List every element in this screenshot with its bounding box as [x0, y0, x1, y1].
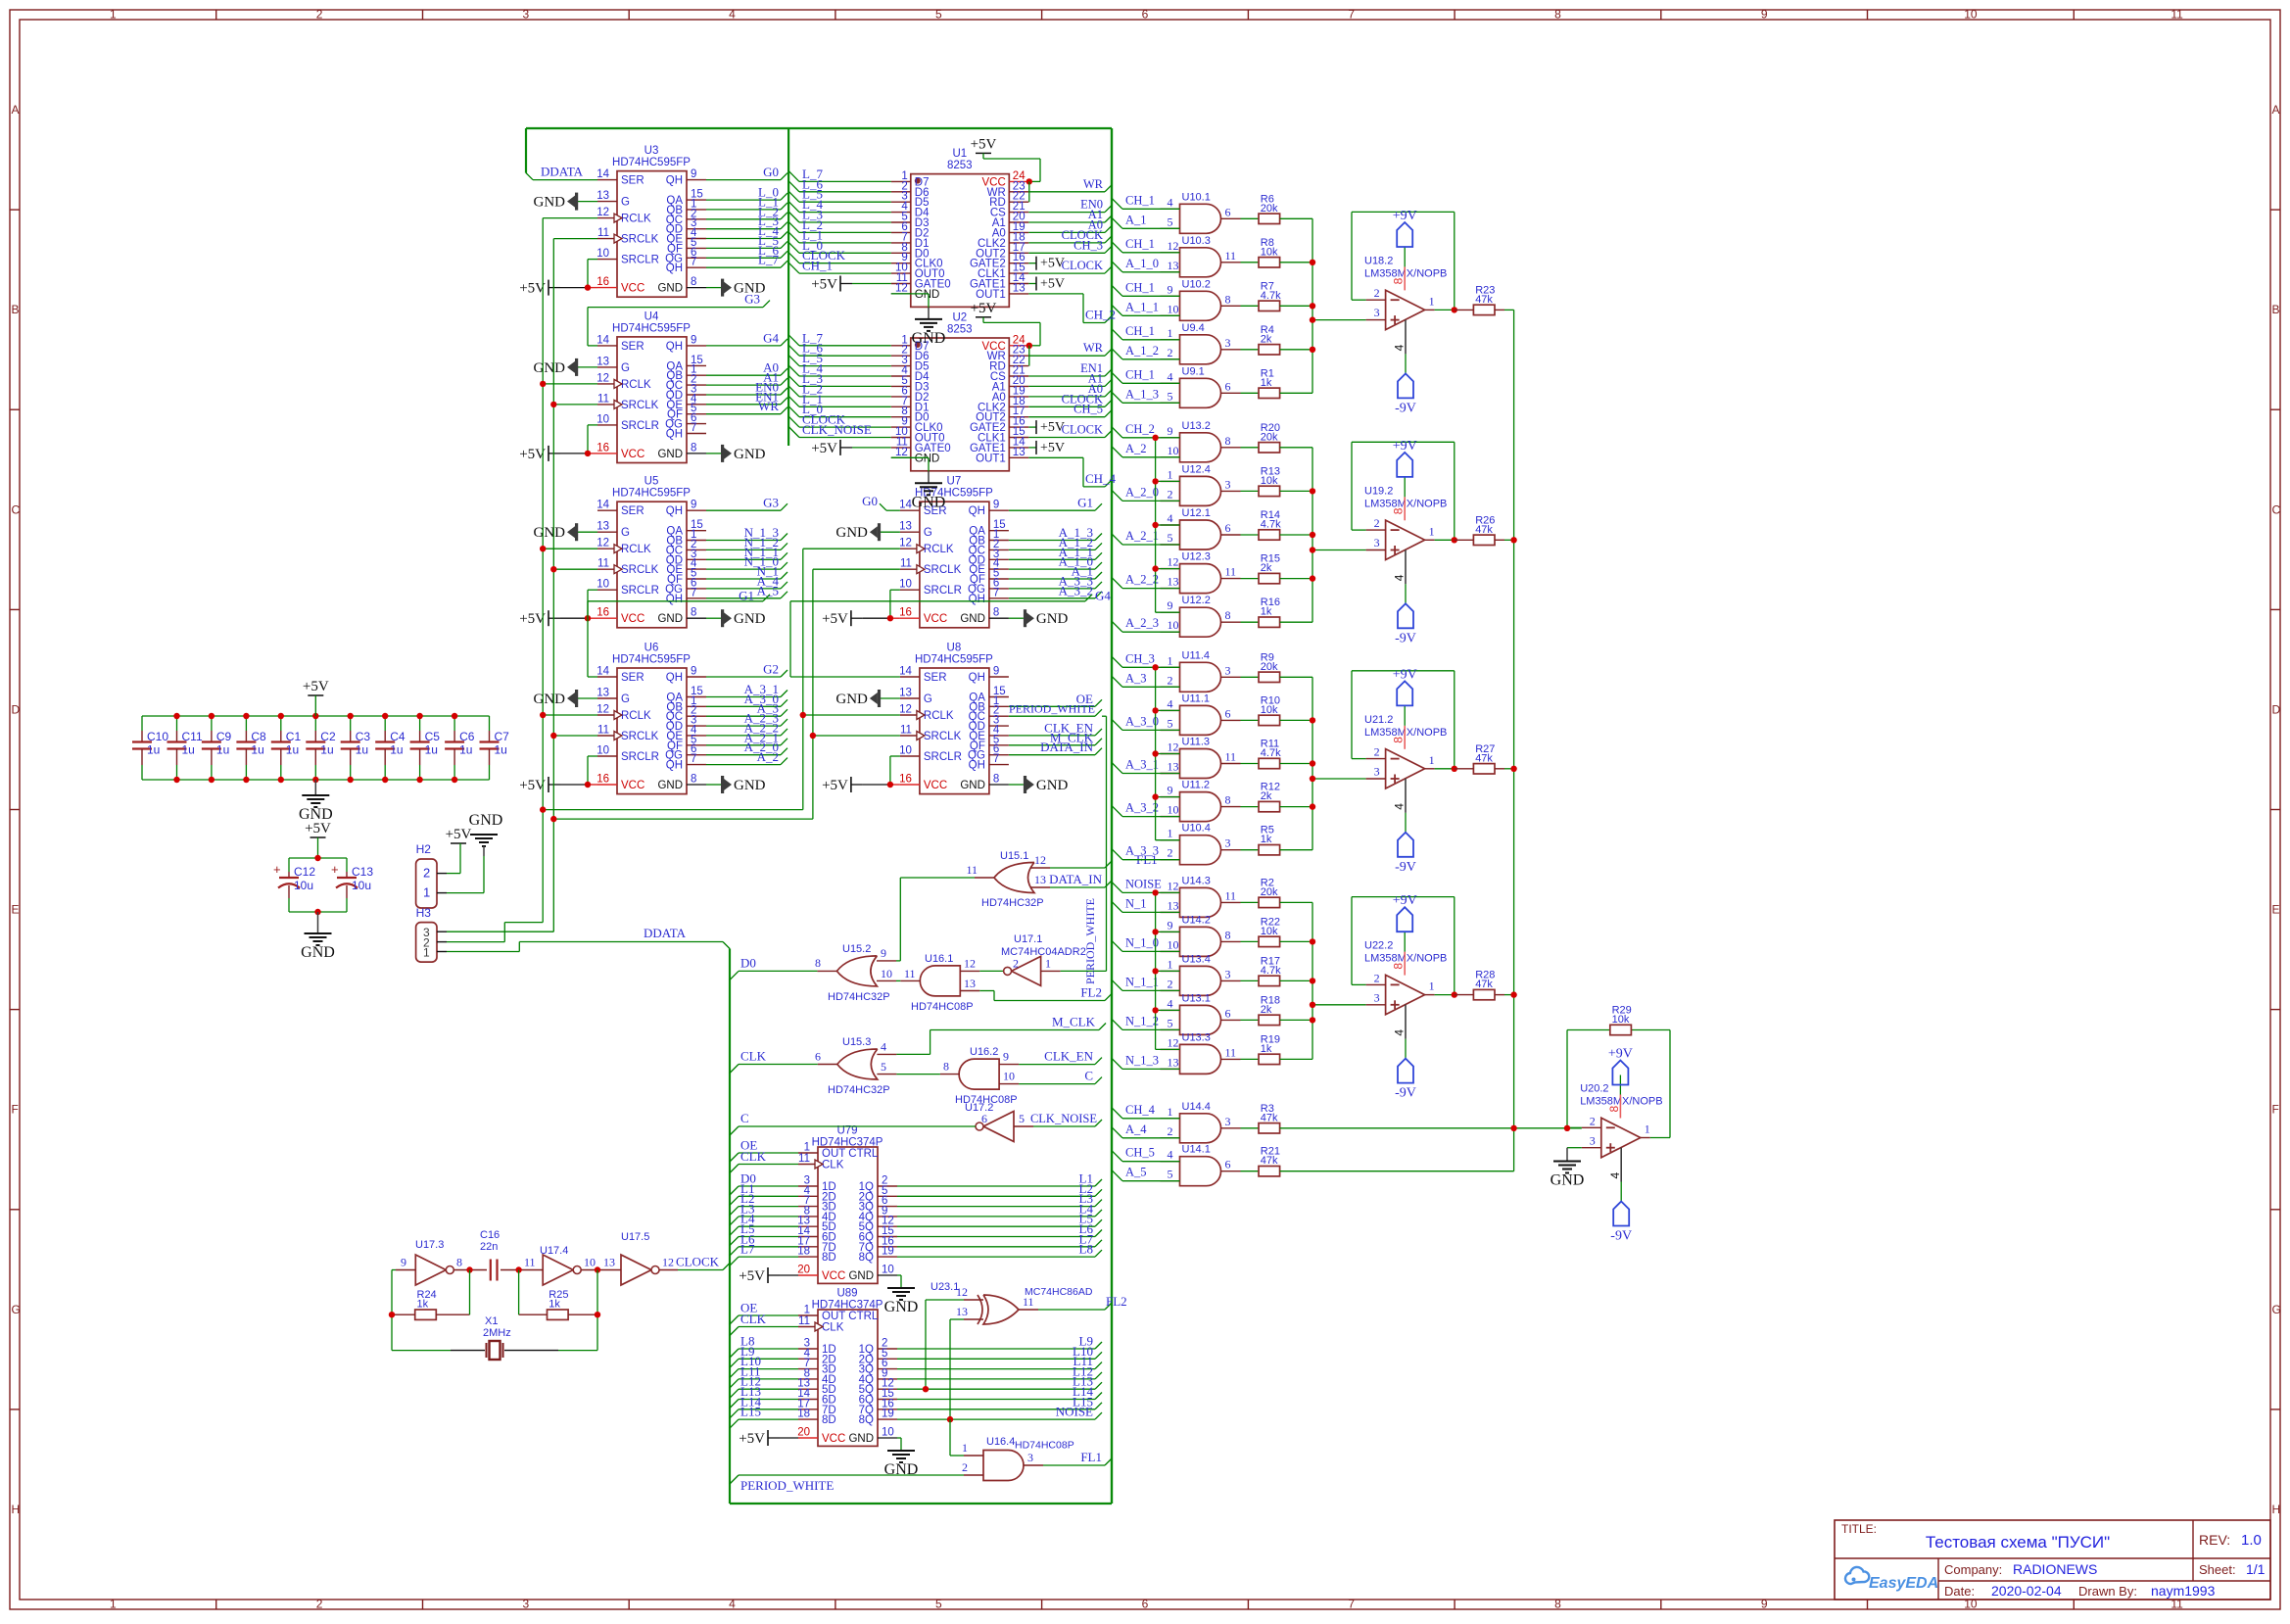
- svg-text:HD74HC32P: HD74HC32P: [828, 991, 890, 1003]
- wire L_7 from 595 output: [706, 261, 787, 267]
- power GND at U89: [884, 1438, 919, 1478]
- junction dots input rail: [1152, 664, 1158, 670]
- svg-text:D0: D0: [740, 955, 756, 970]
- svg-text:PERIOD_WHITE: PERIOD_WHITE: [1009, 702, 1095, 716]
- svg-text:9: 9: [691, 500, 696, 511]
- wire L14 from 374 output: [897, 1393, 1102, 1400]
- svg-text:G: G: [2272, 1303, 2281, 1316]
- and-gate U12.1: [1161, 507, 1241, 549]
- wire L13 from 374 output: [897, 1382, 1102, 1389]
- wire U16.4 in1 from 8Q net: [950, 1419, 964, 1456]
- svg-text:Sheet:: Sheet:: [2199, 1562, 2236, 1577]
- +5V flag at 8253 gate pin: [1028, 420, 1065, 435]
- svg-text:LM358MX/NOPB: LM358MX/NOPB: [1364, 727, 1447, 739]
- svg-text:6: 6: [1225, 1006, 1231, 1020]
- wire U3 SRCLR to VCC: [588, 260, 597, 288]
- svg-text:U16.2: U16.2: [970, 1046, 998, 1058]
- wire CH_3 input: [1112, 656, 1180, 667]
- svg-text:12: 12: [1168, 879, 1179, 892]
- svg-text:LM358MX/NOPB: LM358MX/NOPB: [1364, 267, 1447, 279]
- svg-text:DDATA: DDATA: [644, 926, 687, 940]
- wire VCC to RD: [1028, 181, 1030, 202]
- +5V flag above H2: [446, 827, 472, 848]
- and-gate U11.3: [1161, 737, 1241, 779]
- svg-text:11: 11: [524, 1256, 536, 1269]
- -9V flag: [1395, 1059, 1416, 1101]
- power GND at U3 pin8: [706, 279, 766, 297]
- wire CLK_EN from 595 output: [1009, 729, 1102, 736]
- wire L_3 from 595 output: [706, 222, 787, 229]
- svg-text:QH: QH: [969, 760, 985, 772]
- svg-text:10: 10: [596, 413, 609, 425]
- junction U23.1 in13: [947, 1416, 953, 1422]
- svg-text:10: 10: [1168, 444, 1179, 457]
- svg-text:12: 12: [899, 538, 912, 549]
- svg-text:10: 10: [1168, 618, 1179, 632]
- svg-text:GND: GND: [534, 525, 566, 541]
- svg-text:HD74HC595FP: HD74HC595FP: [612, 322, 691, 334]
- svg-text:4: 4: [1168, 511, 1173, 525]
- svg-text:20k: 20k: [1261, 203, 1278, 215]
- wire L15 from 374 output: [897, 1403, 1102, 1409]
- svg-text:GND: GND: [960, 613, 985, 625]
- svg-text:13: 13: [603, 1256, 615, 1269]
- xor-gate U23.1 MC74HC86AD: [930, 1281, 1093, 1324]
- wire A_2_2 input: [1112, 578, 1180, 589]
- svg-text:SRCLK: SRCLK: [924, 564, 962, 576]
- +5V flag at 8253 gate pin: [1028, 277, 1065, 292]
- shift register U5 HD74HC595FP: [596, 476, 706, 628]
- wire A_3_1 from 595 output: [706, 691, 787, 697]
- svg-text:GND: GND: [1036, 611, 1069, 627]
- svg-text:QH: QH: [969, 672, 985, 684]
- svg-text:GND: GND: [835, 692, 868, 707]
- wire WR from 595 output: [706, 407, 787, 414]
- power GND at U20.2: [1551, 1162, 1585, 1189]
- svg-text:HD74HC595FP: HD74HC595FP: [612, 157, 691, 168]
- svg-text:U3: U3: [644, 145, 659, 157]
- wire A_1_1 input: [1112, 305, 1180, 315]
- svg-text:3: 3: [1374, 536, 1380, 549]
- svg-text:13: 13: [1168, 898, 1179, 912]
- wire D0 from U15.2 out: [730, 971, 817, 979]
- svg-text:6: 6: [1225, 1158, 1231, 1171]
- inverter U17.1 MC74HC04ADR2: [1001, 933, 1086, 985]
- svg-text:A: A: [12, 103, 20, 117]
- svg-text:8: 8: [1392, 507, 1406, 514]
- wire net L_1 to 8253 pin7: [788, 396, 891, 406]
- svg-text:9: 9: [401, 1256, 406, 1269]
- svg-text:GND: GND: [657, 613, 683, 625]
- svg-text:PERIOD_WHITE: PERIOD_WHITE: [1083, 898, 1097, 984]
- and-gate U11.4: [1161, 649, 1241, 692]
- resistor R11 4.7k: [1241, 739, 1313, 769]
- and-gate U13.2: [1161, 420, 1241, 462]
- svg-text:GND: GND: [657, 283, 683, 295]
- svg-text:CLK: CLK: [740, 1312, 767, 1326]
- svg-text:E: E: [12, 903, 20, 917]
- svg-text:10: 10: [1168, 302, 1179, 315]
- wire rail to gate input: [1156, 839, 1180, 841]
- svg-text:C4: C4: [390, 730, 406, 743]
- svg-text:10u: 10u: [352, 879, 371, 892]
- svg-text:9: 9: [691, 666, 696, 678]
- wire rail to gate input: [1156, 1009, 1180, 1011]
- svg-text:G: G: [924, 693, 932, 705]
- svg-text:10: 10: [881, 967, 892, 980]
- svg-text:C12: C12: [294, 865, 315, 879]
- svg-text:+5V: +5V: [519, 447, 546, 462]
- wire A_3_0 input: [1112, 719, 1180, 730]
- wire rail to gate input: [1156, 709, 1180, 711]
- wire U20.2 pin3 to GND: [1567, 1148, 1582, 1162]
- wire net L_5 to 8253 pin3: [788, 191, 891, 202]
- svg-text:G: G: [12, 1303, 21, 1316]
- svg-text:1u: 1u: [147, 743, 160, 757]
- wire rail to gate input: [1156, 611, 1180, 613]
- svg-text:U17.5: U17.5: [621, 1231, 649, 1243]
- svg-text:10u: 10u: [294, 879, 313, 892]
- junction at op-amp output: [1452, 766, 1457, 772]
- wire L10 from bus: [730, 1369, 798, 1378]
- svg-text:1: 1: [1429, 979, 1435, 993]
- wire rail to gate input: [1156, 931, 1180, 932]
- svg-text:RCLK: RCLK: [621, 214, 651, 225]
- svg-text:11: 11: [1225, 1045, 1237, 1059]
- svg-text:L7: L7: [740, 1242, 755, 1257]
- svg-text:14: 14: [899, 500, 912, 511]
- svg-text:A_2_1: A_2_1: [1125, 529, 1159, 543]
- svg-text:10: 10: [899, 579, 912, 591]
- svg-text:VCC: VCC: [621, 283, 644, 295]
- GND flag at U5 G pin: [534, 523, 598, 541]
- and-gate U9.4: [1161, 322, 1241, 364]
- svg-text:+5V: +5V: [519, 611, 546, 627]
- wire L14 from bus: [730, 1409, 798, 1418]
- wire rail to gate input: [1156, 524, 1180, 526]
- +5V flag at U4 VCC: [519, 446, 597, 462]
- svg-text:2: 2: [1168, 977, 1173, 990]
- wire WR: [1028, 349, 1112, 356]
- capacitor C4 1u: [375, 716, 406, 780]
- svg-text:X1: X1: [485, 1315, 498, 1327]
- svg-text:8: 8: [691, 607, 696, 619]
- svg-text:13: 13: [964, 977, 976, 990]
- wire A_2_1 from 595 output: [706, 739, 787, 745]
- wire CLOCK: [1028, 266, 1112, 273]
- op-amp U21.2 LM358MX/NOPB: [1364, 706, 1447, 833]
- svg-text:13: 13: [899, 521, 912, 533]
- wire A_4 input: [1112, 1127, 1180, 1138]
- capacitor C13 10u polarized: [331, 858, 373, 912]
- svg-text:CLK: CLK: [822, 1160, 844, 1171]
- svg-text:1: 1: [1429, 294, 1435, 308]
- +5V flag at U5 VCC: [519, 610, 597, 627]
- wire OE from 595 output: [1009, 699, 1102, 706]
- svg-text:U10.4: U10.4: [1182, 823, 1211, 835]
- svg-text:+5V: +5V: [303, 679, 329, 694]
- +5V flag at U89 VCC: [739, 1430, 798, 1447]
- svg-text:7: 7: [691, 257, 696, 268]
- svg-text:LM358MX/NOPB: LM358MX/NOPB: [1580, 1096, 1662, 1108]
- svg-text:G: G: [621, 527, 630, 539]
- resistor R4 2k: [1241, 324, 1313, 355]
- svg-text:U13.4: U13.4: [1182, 953, 1211, 965]
- wire L4 from bus: [730, 1226, 798, 1235]
- svg-text:4: 4: [1393, 803, 1407, 810]
- wire L5 from bus: [730, 1237, 798, 1246]
- wire A_3_2 input: [1112, 806, 1180, 817]
- wire G3 from 595 output: [706, 503, 787, 510]
- svg-text:1: 1: [1045, 956, 1051, 970]
- svg-text:1: 1: [1168, 1105, 1173, 1119]
- wire CH_5 input: [1112, 1151, 1180, 1162]
- wire L4 from 374 output: [897, 1210, 1102, 1217]
- wire rail to gate input: [1156, 480, 1180, 482]
- resistor R23 47k: [1455, 284, 1514, 314]
- wire PERIOD_WHITE from U8 QC: [1009, 709, 1102, 716]
- wire L15 from bus: [730, 1419, 798, 1428]
- svg-text:N_1_0: N_1_0: [1125, 935, 1159, 949]
- wire net G4 to U8 SER: [790, 595, 1092, 677]
- resistor R25 1k: [519, 1289, 597, 1319]
- svg-text:SRCLK: SRCLK: [621, 400, 659, 411]
- svg-text:SER: SER: [621, 672, 644, 684]
- wire DDATA to U3 SER: [526, 173, 597, 180]
- svg-text:1u: 1u: [459, 743, 472, 757]
- wire WR: [1028, 185, 1112, 192]
- svg-text:1.0: 1.0: [2241, 1532, 2262, 1549]
- capacitor C12 10u polarized: [273, 858, 315, 912]
- svg-text:CH_1: CH_1: [1125, 324, 1155, 338]
- svg-text:10: 10: [1168, 803, 1179, 817]
- wire A_2_0 from 595 output: [706, 748, 787, 755]
- capacitor C9 1u: [202, 716, 232, 780]
- svg-text:4: 4: [1393, 344, 1407, 351]
- svg-text:VCC: VCC: [621, 613, 644, 625]
- wire A_3_3 input: [1112, 849, 1180, 860]
- wire CLK_EN from U16.2 in9: [1019, 1058, 1102, 1065]
- wire N_1 from 595 output: [706, 572, 787, 579]
- svg-text:L_7: L_7: [758, 253, 779, 267]
- svg-text:7: 7: [1348, 1598, 1355, 1611]
- wire N_1_2 input: [1112, 1019, 1180, 1029]
- svg-text:11: 11: [1225, 750, 1237, 764]
- wire A_2_3 from 595 output: [706, 719, 787, 726]
- wire L11 from 374 output: [897, 1362, 1102, 1369]
- and-gate U13.1: [1161, 992, 1241, 1034]
- svg-text:8: 8: [1392, 737, 1406, 743]
- wire net L_1 to 8253 pin7: [788, 232, 891, 243]
- svg-text:1: 1: [804, 1142, 810, 1154]
- wire N_1_1 input: [1112, 979, 1180, 990]
- and-gate U16.1 HD74HC08P: [900, 953, 979, 1013]
- svg-text:2: 2: [316, 1598, 323, 1611]
- svg-text:G0: G0: [763, 165, 779, 179]
- svg-text:Date:: Date:: [1944, 1584, 1975, 1599]
- svg-text:N_1_3: N_1_3: [1125, 1053, 1159, 1067]
- svg-text:L8: L8: [1079, 1242, 1093, 1257]
- svg-text:47k: 47k: [1475, 752, 1493, 764]
- svg-text:E: E: [2272, 903, 2280, 917]
- capacitor C3 1u: [341, 716, 371, 780]
- svg-text:1u: 1u: [356, 743, 368, 757]
- +9V flag: [1393, 439, 1417, 477]
- svg-text:3: 3: [1225, 836, 1231, 850]
- wire U16.1 in12 to U17.1: [979, 970, 1004, 972]
- svg-text:11: 11: [798, 1153, 810, 1165]
- and-gate U11.1: [1161, 693, 1241, 735]
- connector H2: [416, 842, 447, 908]
- and-gate U11.2: [1161, 780, 1241, 822]
- svg-text:CH_5: CH_5: [1073, 403, 1103, 416]
- svg-text:U10.3: U10.3: [1182, 235, 1211, 247]
- svg-text:U16.4: U16.4: [986, 1436, 1015, 1448]
- wire OE from bus: [730, 1153, 798, 1162]
- wire H3 pin1 DDATA: [447, 942, 730, 952]
- and-gate U14.4: [1161, 1101, 1241, 1143]
- junction dots R24 R25: [389, 1312, 395, 1317]
- svg-text:OUT1: OUT1: [976, 453, 1006, 464]
- wire A1: [1028, 379, 1112, 386]
- wire DATA_IN from 595 output: [1009, 748, 1102, 755]
- svg-text:20k: 20k: [1261, 661, 1278, 673]
- svg-text:+5V: +5V: [446, 827, 472, 842]
- wire A_2 from 595 output: [706, 758, 787, 765]
- wire A_2_1 input: [1112, 534, 1180, 545]
- svg-text:12: 12: [662, 1256, 674, 1269]
- wire summing collector: [1312, 218, 1366, 393]
- and-gate U12.3: [1161, 551, 1241, 594]
- svg-text:A_1_0: A_1_0: [1125, 257, 1159, 270]
- GND flag at U3 G pin: [534, 193, 598, 211]
- svg-text:13: 13: [1168, 1055, 1179, 1069]
- wire U23.1 in13 from 8Q: [950, 1319, 964, 1419]
- wire N_1_0 from 595 output: [706, 562, 787, 569]
- wire input rail: [1155, 667, 1157, 839]
- power GND at U6 pin8: [706, 776, 766, 793]
- wire L3 from bus: [730, 1217, 798, 1225]
- svg-text:HD74HC374P: HD74HC374P: [812, 1300, 883, 1312]
- junction dots collector: [1310, 260, 1315, 265]
- GND flag at U4 G pin: [534, 358, 598, 376]
- -9V flag U20.2: [1610, 1202, 1632, 1244]
- svg-text:L15: L15: [740, 1405, 761, 1419]
- svg-text:13: 13: [1168, 575, 1179, 589]
- svg-text:20k: 20k: [1261, 431, 1278, 443]
- svg-text:F: F: [12, 1103, 19, 1117]
- svg-text:10: 10: [882, 1265, 894, 1276]
- svg-text:CLK: CLK: [822, 1322, 844, 1334]
- wire net L_3 to 8253 pin5: [788, 375, 891, 386]
- resistor R18 2k: [1241, 994, 1313, 1025]
- wire N_1 input: [1112, 901, 1180, 912]
- svg-text:8: 8: [1225, 793, 1231, 807]
- svg-text:8D: 8D: [822, 1252, 836, 1264]
- power GND at U7 pin8: [1009, 609, 1069, 627]
- svg-text:3: 3: [1374, 765, 1380, 779]
- svg-text:HD74HC595FP: HD74HC595FP: [612, 654, 691, 666]
- svg-text:SRCLR: SRCLR: [621, 751, 659, 763]
- svg-text:CH_5: CH_5: [1125, 1146, 1155, 1160]
- wire L1 from 374 output: [897, 1179, 1102, 1186]
- wire net L_0 to 8253 pin8: [788, 242, 891, 253]
- svg-text:2020-02-04: 2020-02-04: [1991, 1583, 2062, 1599]
- svg-text:NOISE: NOISE: [1125, 877, 1162, 890]
- resistor R10 10k: [1241, 694, 1313, 725]
- svg-text:11: 11: [798, 1315, 810, 1327]
- svg-text:4: 4: [729, 1598, 736, 1611]
- svg-text:GND: GND: [835, 525, 868, 541]
- wire A_3_2 from 595 output: [1009, 592, 1102, 598]
- svg-text:G: G: [621, 197, 630, 209]
- svg-text:5: 5: [881, 1060, 886, 1074]
- svg-text:G0: G0: [862, 494, 878, 508]
- svg-text:SRCLK: SRCLK: [621, 564, 659, 576]
- svg-text:+5V: +5V: [739, 1431, 765, 1447]
- svg-text:4: 4: [881, 1039, 886, 1053]
- wire A_1_1 from 595 output: [1009, 552, 1102, 559]
- svg-text:9: 9: [1761, 1598, 1768, 1611]
- svg-text:A_3_0: A_3_0: [1125, 714, 1159, 728]
- wire feedback loop: [1352, 442, 1455, 540]
- junction dots oscillator: [466, 1266, 472, 1272]
- junction dots U20.2 input: [1564, 1125, 1570, 1131]
- capacitor C1 1u: [271, 716, 302, 780]
- svg-text:-9V: -9V: [1610, 1229, 1632, 1244]
- svg-text:CH_2: CH_2: [1085, 308, 1116, 322]
- svg-text:QH: QH: [666, 429, 683, 441]
- svg-text:U13.2: U13.2: [1182, 420, 1211, 432]
- svg-text:14: 14: [596, 168, 609, 180]
- svg-text:GND: GND: [1551, 1172, 1585, 1189]
- wire CLOCK: [1028, 431, 1112, 438]
- svg-text:9: 9: [1168, 282, 1173, 296]
- and-gate U10.1: [1161, 191, 1241, 233]
- svg-text:PERIOD_WHITE: PERIOD_WHITE: [740, 1478, 834, 1493]
- svg-text:CLOCK: CLOCK: [676, 1255, 720, 1269]
- wire rail to gate input: [1156, 753, 1180, 755]
- svg-text:H3: H3: [416, 906, 432, 920]
- svg-text:1: 1: [1168, 827, 1173, 840]
- svg-text:12: 12: [1168, 1035, 1179, 1049]
- -9V flag: [1395, 373, 1416, 415]
- resistor R24 1k: [392, 1289, 470, 1319]
- +5V flag at U7 VCC: [822, 610, 900, 627]
- svg-text:U4: U4: [644, 310, 659, 322]
- svg-text:3: 3: [1225, 663, 1231, 677]
- svg-text:U14.4: U14.4: [1182, 1101, 1211, 1113]
- svg-text:A: A: [2272, 103, 2280, 117]
- svg-text:7: 7: [691, 587, 696, 598]
- svg-text:N_1_1: N_1_1: [1125, 975, 1159, 988]
- svg-text:+9V: +9V: [1608, 1047, 1633, 1062]
- +5V flag at U79 VCC: [739, 1267, 798, 1284]
- svg-text:4: 4: [1168, 369, 1173, 383]
- wire L8 from bus: [730, 1349, 798, 1358]
- svg-text:CLK_NOISE: CLK_NOISE: [1030, 1112, 1097, 1125]
- svg-text:10k: 10k: [1261, 704, 1278, 716]
- wire A_2 input: [1112, 447, 1180, 457]
- svg-text:QH: QH: [969, 594, 985, 605]
- svg-text:C6: C6: [459, 730, 475, 743]
- inverter U17.3 MC74HC04: [396, 1239, 470, 1285]
- svg-text:16: 16: [596, 442, 609, 454]
- svg-text:SER: SER: [621, 341, 644, 353]
- svg-text:+5V: +5V: [1040, 441, 1065, 455]
- wire net L_3 to 8253 pin5: [788, 212, 891, 222]
- wire L11 from bus: [730, 1379, 798, 1388]
